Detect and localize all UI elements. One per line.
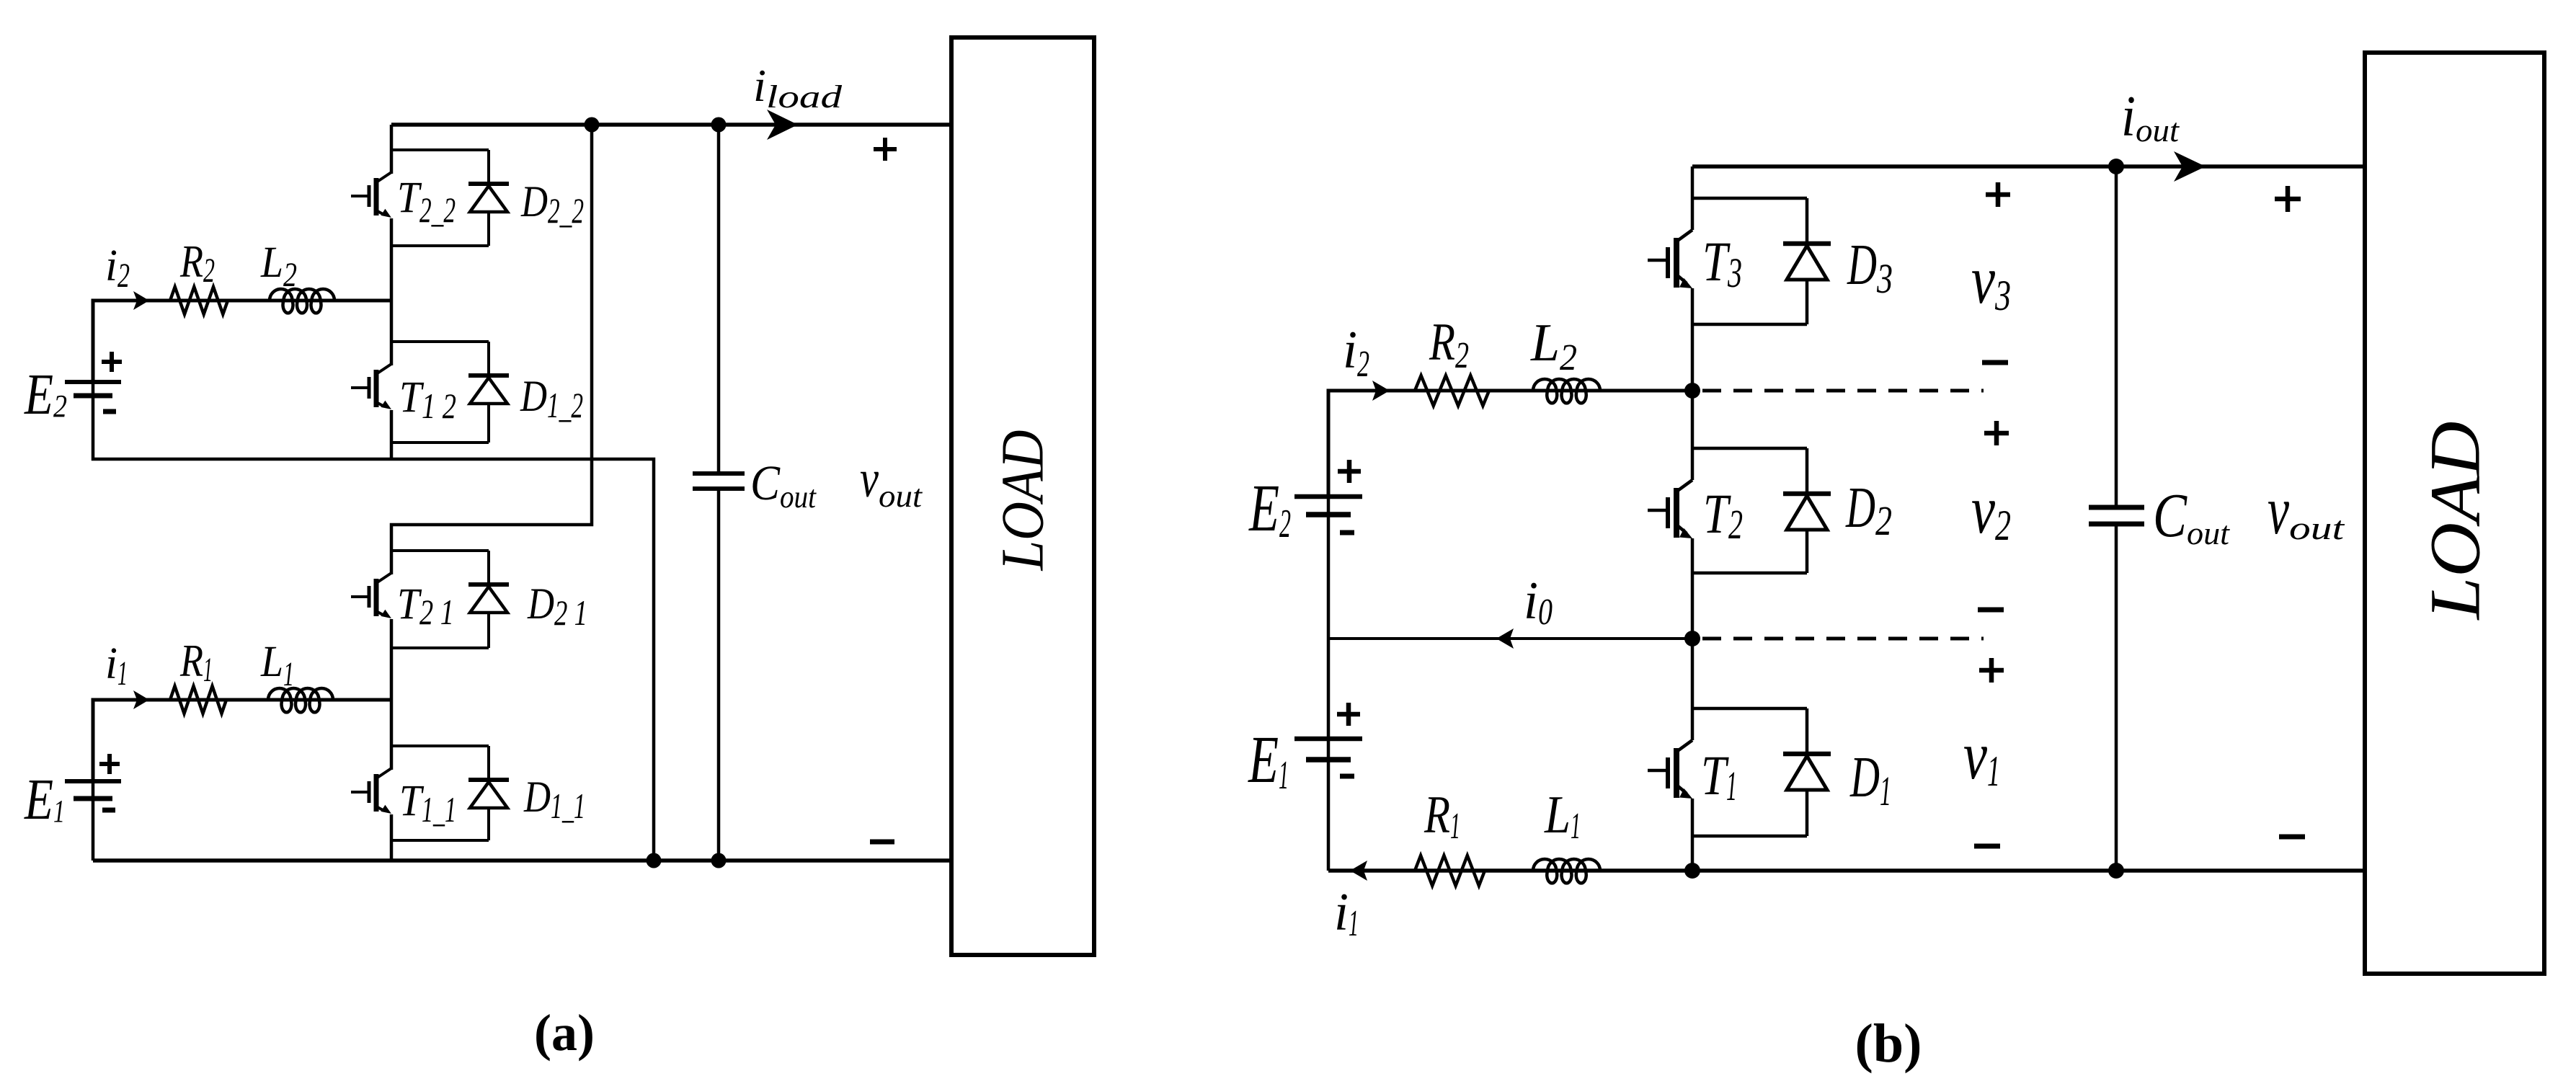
- wire leg T1_1 to bottom wire: [390, 814, 394, 861]
- wire i1 feed (E1 + to leg): [93, 700, 391, 781]
- svg-text:i2: i2: [1343, 321, 1369, 385]
- battery E2 (b): [1327, 497, 1331, 515]
- transistor T3: [1676, 230, 1692, 241]
- svg-text:E1: E1: [1248, 723, 1289, 798]
- svg-text:T1: T1: [1701, 744, 1737, 809]
- svg-text:T2_2: T2_2: [397, 174, 456, 230]
- node: bottom wire / E2 rail junction: [647, 853, 662, 868]
- svg-text:T3: T3: [1702, 230, 1742, 296]
- svg-text:i1: i1: [105, 639, 128, 693]
- wire T2_1 emitter branch: [391, 646, 489, 649]
- svg-text:R1: R1: [1424, 786, 1460, 847]
- svg-text:T1 2: T1 2: [399, 373, 456, 426]
- arrow i0: [1496, 628, 1514, 649]
- node: top wire / lower-bridge rail junction: [585, 117, 600, 133]
- plus sign E2 (b): [1338, 460, 1361, 483]
- resistor R2 (b): [1415, 375, 1489, 406]
- node: leg / i0 junction (b): [1684, 631, 1700, 646]
- plus sign v_out (a): [874, 138, 897, 161]
- wire T1 emitter branch: [1692, 835, 1807, 838]
- figure (a) top output wire: [391, 123, 951, 127]
- transistor T1_2: [376, 364, 391, 374]
- svg-text:(b): (b): [1855, 1013, 1922, 1074]
- minus sign v3: [1982, 360, 2008, 365]
- plus sign v1: [1979, 658, 2004, 683]
- diode D2_2: [487, 150, 490, 184]
- wire T2 emitter branch: [1692, 572, 1807, 575]
- svg-text:E2: E2: [24, 362, 67, 427]
- svg-text:D1_2: D1_2: [520, 373, 583, 425]
- wire leg mid-node to T1_1: [390, 700, 394, 770]
- svg-text:v1: v1: [1963, 717, 2000, 795]
- node: top wire / Cout junction (b): [2108, 159, 2124, 174]
- svg-text:v2: v2: [1971, 471, 2011, 549]
- battery E1 (a): [92, 781, 95, 799]
- svg-text:L2: L2: [1530, 314, 1577, 378]
- node: leg / i2 junction (b): [1684, 383, 1700, 399]
- svg-text:vout: vout: [2268, 472, 2345, 548]
- diode D3: [1806, 198, 1809, 244]
- battery E2 (a): [92, 382, 95, 396]
- wire T2_1 collector branch: [391, 549, 489, 552]
- svg-text:v3: v3: [1971, 241, 2011, 319]
- plus sign E1 (b): [1337, 703, 1360, 726]
- figure (b) top output wire: [1692, 164, 2365, 169]
- svg-text:T2 1: T2 1: [397, 580, 454, 632]
- dashed line v2 minus level: [1702, 637, 1984, 641]
- wire leg T1 to bottom wire: [1691, 799, 1695, 871]
- arrow i2 (b): [1372, 381, 1390, 401]
- transistor T2_1: [376, 573, 391, 583]
- svg-text:T2: T2: [1703, 482, 1743, 548]
- battery E1 (b): [1327, 739, 1331, 760]
- minus sign E2 (a): [103, 409, 116, 414]
- LOAD box (b): [2365, 53, 2544, 974]
- wire T2 collector branch: [1692, 447, 1807, 450]
- diode D1_2: [487, 342, 490, 375]
- wire left rail E2- to i0: [1327, 515, 1331, 639]
- svg-text:i2: i2: [105, 241, 130, 295]
- svg-text:D1_1: D1_1: [523, 773, 585, 826]
- wire T3 emitter branch: [1692, 323, 1807, 326]
- svg-text:R1: R1: [179, 636, 213, 689]
- plus sign v2: [1984, 421, 2009, 445]
- svg-text:i0: i0: [1524, 572, 1553, 633]
- svg-text:D2: D2: [1845, 476, 1892, 544]
- dashed line v3 minus level: [1702, 389, 1984, 393]
- svg-text:iload: iload: [753, 60, 843, 115]
- svg-text:E2: E2: [1248, 471, 1291, 546]
- wire T2_2 emitter branch: [391, 244, 489, 247]
- svg-text:vout: vout: [860, 450, 923, 514]
- minus sign v2: [1978, 608, 2004, 613]
- wire leg T3 to i2 node: [1691, 288, 1695, 480]
- svg-text:L1: L1: [260, 638, 294, 693]
- wire upper leg segment (top wire to T2_2): [390, 125, 394, 174]
- svg-text:L1: L1: [1544, 786, 1581, 847]
- minus sign E1 (b): [1340, 774, 1354, 779]
- wire T3 collector branch: [1692, 197, 1807, 200]
- wire leg T2_2 to mid-node: [390, 218, 394, 301]
- inductor L2 (a): [270, 289, 334, 313]
- plus sign v_out (b): [2275, 186, 2301, 212]
- wire E1 negative to bottom wire: [92, 799, 95, 861]
- minus sign v_out (a): [870, 840, 894, 845]
- arrow i_load: [767, 110, 798, 140]
- diode D1: [1806, 708, 1809, 754]
- transistor T1_1: [376, 768, 391, 778]
- plus sign v3: [1986, 182, 2010, 207]
- resistor R1 (a): [170, 686, 226, 714]
- transistor T2_2: [376, 172, 391, 182]
- svg-text:D1: D1: [1849, 746, 1891, 814]
- plus sign E2 (a): [102, 352, 122, 372]
- resistor R1 (b): [1415, 855, 1485, 886]
- arrow i_out: [2174, 151, 2206, 182]
- svg-text:D2 1: D2 1: [527, 580, 587, 633]
- wire leg top segment (b): [1691, 166, 1695, 230]
- wire i0 (b): [1328, 637, 1692, 640]
- svg-text:D2_2: D2_2: [520, 178, 584, 231]
- svg-text:Cout: Cout: [2153, 480, 2230, 551]
- capacitor Cout (a): [717, 125, 721, 474]
- node: top wire / Cout junction: [711, 117, 727, 133]
- inductor L1 (b): [1533, 859, 1600, 883]
- wire leg mid-node to T1_2: [390, 301, 394, 365]
- wire E2 negative return: [93, 396, 654, 861]
- diode D2_1: [487, 551, 490, 584]
- wire T1 collector branch: [1692, 707, 1807, 711]
- wire leg T1_2 to E2 return: [390, 410, 394, 459]
- capacitor Cout (b): [2115, 166, 2118, 507]
- resistor R2 (a): [170, 287, 228, 314]
- wire T1_2 emitter branch: [391, 441, 489, 444]
- wire i2 feed (E2 + to leg): [93, 301, 391, 382]
- minus sign E2 (b): [1340, 530, 1354, 535]
- wire T1_1 emitter branch: [391, 839, 489, 842]
- svg-text:R2: R2: [179, 236, 215, 290]
- wire T1_1 collector branch: [391, 744, 489, 747]
- wire rail top-wire to lower bridge: [391, 125, 592, 574]
- node: bottom wire / Cout junction: [711, 853, 727, 868]
- wire leg T2 to i0 node: [1691, 538, 1695, 740]
- svg-text:L2: L2: [260, 239, 297, 294]
- transistor T2: [1676, 480, 1692, 492]
- node: bottom wire / Cout junction (b): [2108, 863, 2124, 879]
- svg-text:D3: D3: [1847, 234, 1893, 302]
- arrow i1: [133, 690, 149, 709]
- wire T2_2 collector branch: [391, 148, 489, 151]
- wire T1_2 collector branch: [391, 340, 489, 343]
- svg-text:E1: E1: [24, 767, 65, 832]
- arrow i2: [133, 291, 149, 310]
- diode D1_1: [487, 746, 490, 780]
- plus sign E1 (a): [99, 754, 120, 774]
- inductor L1 (a): [268, 688, 333, 712]
- node: bottom wire / leg junction (b): [1684, 863, 1700, 879]
- svg-text:i1: i1: [1334, 883, 1359, 944]
- arrow i1 (b): [1350, 861, 1367, 881]
- transistor T1: [1676, 740, 1692, 752]
- svg-text:(a): (a): [534, 1004, 595, 1062]
- svg-text:LOAD: LOAD: [990, 430, 1057, 572]
- svg-text:Cout: Cout: [750, 455, 817, 515]
- wire i2 feed (b): [1328, 391, 1692, 497]
- wire leg T2_1 to mid-node: [390, 619, 394, 700]
- inductor L2 (b): [1533, 379, 1600, 403]
- figure (a) bottom wire: [93, 858, 951, 863]
- svg-text:LOAD: LOAD: [2415, 422, 2495, 621]
- svg-text:R2: R2: [1429, 313, 1469, 376]
- wire left rail i0 to E1+: [1327, 639, 1331, 739]
- diode D2: [1806, 448, 1809, 494]
- wire left rail E1- to bottom wire: [1327, 760, 1331, 871]
- svg-text:iout: iout: [2121, 85, 2180, 148]
- minus sign E1 (a): [102, 808, 115, 813]
- minus sign v_out (b): [2279, 835, 2305, 840]
- LOAD box (a): [951, 37, 1094, 955]
- figure (b) bottom wire: [1328, 868, 2365, 873]
- svg-text:T1_1: T1_1: [399, 777, 456, 830]
- minus sign v1: [1974, 844, 2000, 849]
